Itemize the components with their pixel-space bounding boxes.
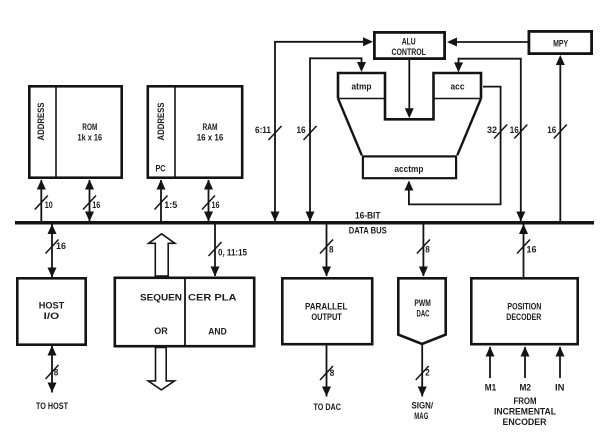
wire ROM address (10) xyxy=(40,180,42,221)
svg-text:6:11: 6:11 xyxy=(255,125,271,135)
bus-width slash 1:5 xyxy=(155,196,168,210)
svg-text:M2: M2 xyxy=(520,383,532,393)
label HOST I/O xyxy=(39,300,65,321)
block SEQUENCER PLA xyxy=(115,277,254,348)
wire bus to HOST I/O (16) xyxy=(51,225,53,278)
bus-width slash 16 xyxy=(554,125,567,139)
bus-width slash 16 xyxy=(304,126,317,140)
svg-text:16-BIT: 16-BIT xyxy=(355,210,381,220)
ALU funnel left slant xyxy=(338,99,362,156)
wire bus to ALU CONTROL (6:11) xyxy=(275,42,371,221)
wire PWM DAC to sign/mag (2) xyxy=(421,345,423,397)
label RAM 16 x 16 xyxy=(197,122,224,143)
hollow arrow sequencer down xyxy=(148,348,174,390)
svg-text:PWM: PWM xyxy=(414,298,431,308)
wire HOST I/O to host (8) xyxy=(51,346,53,393)
bus-width slash 8 xyxy=(320,240,333,254)
svg-text:ENCODER: ENCODER xyxy=(503,417,547,427)
block PWM DAC xyxy=(398,278,445,344)
label POSITION DECODER xyxy=(506,301,541,322)
bus-width slash 16 xyxy=(514,125,527,139)
block ALU CONTROL xyxy=(374,32,444,58)
svg-text:1k x 16: 1k x 16 xyxy=(78,133,103,143)
svg-text:OUTPUT: OUTPUT xyxy=(311,312,342,322)
wire encoder input M1 xyxy=(489,347,491,378)
bus-width slash 16 xyxy=(46,240,59,254)
bus-width slash 8 xyxy=(417,240,430,254)
label SIGN/ MAG xyxy=(412,400,434,421)
svg-text:POSITION: POSITION xyxy=(507,301,541,311)
ALU funnel right slant xyxy=(457,99,481,156)
svg-text:MPY: MPY xyxy=(553,38,568,48)
ALU register bank outline (atmp / notch / acc) xyxy=(338,73,481,119)
bus-width slash 8 xyxy=(320,366,333,380)
bus-width slash 2 xyxy=(416,366,429,380)
svg-text:16 x 16: 16 x 16 xyxy=(197,133,224,143)
svg-text:1:5: 1:5 xyxy=(164,200,177,210)
label PWM DAC xyxy=(414,298,431,319)
svg-text:16: 16 xyxy=(212,200,220,210)
svg-text:TO DAC: TO DAC xyxy=(313,402,341,412)
block RAM U2 xyxy=(148,85,242,179)
svg-text:16: 16 xyxy=(527,245,537,255)
svg-text:atmp: atmp xyxy=(352,81,372,91)
svg-text:ALU: ALU xyxy=(402,37,416,47)
wire position decoder to bus (16) xyxy=(523,225,525,278)
svg-text:16: 16 xyxy=(547,125,556,135)
svg-text:32: 32 xyxy=(487,125,497,135)
bus-width slash 16 xyxy=(202,196,215,210)
svg-text:M1: M1 xyxy=(485,383,497,393)
wire encoder input M2 xyxy=(524,347,526,378)
svg-text:I/O: I/O xyxy=(44,311,60,321)
wire bus to atmp (16) xyxy=(310,58,362,221)
wire RAM address PC (1:5) xyxy=(160,180,162,221)
bus-width slash 16 xyxy=(517,240,530,254)
block ROM U1 xyxy=(29,85,121,179)
svg-text:ADDRESS: ADDRESS xyxy=(36,103,46,141)
svg-text:DATA BUS: DATA BUS xyxy=(349,226,387,236)
svg-text:8: 8 xyxy=(329,245,334,255)
wire bus to MPY (16) xyxy=(559,57,561,221)
hollow arrow bus to sequencer (up) xyxy=(149,234,175,276)
svg-text:AND: AND xyxy=(208,326,227,336)
register acc separator xyxy=(434,98,482,100)
wire MPY to ALU CONTROL xyxy=(449,41,528,43)
wire bus to sequencer AND plane (0, 11:15) xyxy=(214,225,216,277)
block MPY xyxy=(529,31,592,53)
wire bus to parallel output (8) xyxy=(326,225,328,277)
label ROM 1k x 16 xyxy=(78,122,103,143)
svg-text:CONTROL: CONTROL xyxy=(391,47,426,57)
svg-text:INCREMENTAL: INCREMENTAL xyxy=(494,406,556,416)
svg-text:16: 16 xyxy=(297,125,306,135)
svg-text:16: 16 xyxy=(56,241,66,251)
svg-text:OR: OR xyxy=(154,326,168,336)
data bus (16-BIT DATA BUS) xyxy=(15,221,594,225)
svg-text:CER PLA: CER PLA xyxy=(188,293,237,303)
bus-width slash 8 xyxy=(46,365,59,379)
bus-width slash 16 xyxy=(83,196,96,210)
wire acc to acctmp feedback (32) xyxy=(409,87,501,205)
svg-text:2: 2 xyxy=(425,367,430,377)
svg-text:acc: acc xyxy=(451,81,465,91)
wire parallel output to DAC (8) xyxy=(326,346,328,397)
svg-text:PARALLEL: PARALLEL xyxy=(305,301,348,311)
svg-text:DECODER: DECODER xyxy=(506,312,541,322)
svg-text:IN: IN xyxy=(555,383,565,393)
wire ALU CONTROL to ALU notch xyxy=(408,60,410,116)
svg-text:SEQUEN: SEQUEN xyxy=(140,293,182,303)
wire ROM data (16) xyxy=(89,180,91,221)
svg-text:8: 8 xyxy=(425,245,430,255)
svg-text:8: 8 xyxy=(330,368,335,378)
wire bus to PWM DAC (8) xyxy=(422,225,424,277)
bus-width slash 32 xyxy=(494,125,507,139)
svg-text:acctmp: acctmp xyxy=(394,164,423,174)
wire encoder input IN xyxy=(559,347,561,378)
register acctmp xyxy=(363,156,456,178)
wire bus to acc (16) xyxy=(459,59,521,221)
svg-text:ADDRESS: ADDRESS xyxy=(156,103,166,141)
svg-text:SIGN/: SIGN/ xyxy=(412,400,434,410)
block PARALLEL OUTPUT xyxy=(282,278,372,344)
label FROM INCREMENTAL ENCODER xyxy=(494,396,556,427)
label ALU CONTROL xyxy=(391,37,426,57)
bus-width slash 0,11:15 xyxy=(209,242,222,256)
svg-text:16: 16 xyxy=(510,125,519,135)
svg-text:16: 16 xyxy=(92,200,100,210)
svg-text:0, 11:15: 0, 11:15 xyxy=(218,248,247,258)
register atmp separator xyxy=(338,98,385,100)
svg-text:PC: PC xyxy=(156,164,166,174)
label SEQUENCER PLA xyxy=(140,293,237,303)
bus-width slash 10 xyxy=(35,196,48,210)
block HOST I/O xyxy=(17,278,85,344)
wire RAM data (16) xyxy=(208,180,210,221)
svg-text:HOST: HOST xyxy=(39,300,65,310)
svg-text:DAC: DAC xyxy=(417,309,430,319)
block POSITION DECODER xyxy=(471,278,577,344)
svg-text:8: 8 xyxy=(54,367,59,377)
svg-text:10: 10 xyxy=(45,200,53,210)
bus-width slash 6:11 xyxy=(269,126,282,140)
svg-text:MAG: MAG xyxy=(414,411,428,421)
svg-text:ROM: ROM xyxy=(82,122,97,132)
svg-text:RAM: RAM xyxy=(203,122,218,132)
svg-text:TO HOST: TO HOST xyxy=(36,401,68,411)
label PARALLEL OUTPUT xyxy=(305,301,348,322)
svg-text:FROM: FROM xyxy=(514,396,537,406)
